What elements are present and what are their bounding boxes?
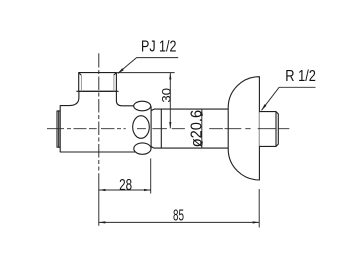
outlet nut line (160, 109, 162, 148)
nipple thread relief line (275, 112, 277, 147)
top port PJ1/2 rectangle (79, 73, 117, 92)
wall escutcheon dome (228, 77, 259, 180)
arrowhead d20.6 top (201, 109, 203, 116)
dimension line 28 (99, 189, 151, 191)
svg-text:30: 30 (161, 88, 173, 103)
valve body outline (left block, top and bottom edges, neck fillets) (60, 91, 136, 152)
svg-text:R 1/2: R 1/2 (285, 68, 316, 85)
svg-text:ø20.6: ø20.6 (188, 110, 205, 147)
top port chamfer right (114, 73, 117, 76)
handle top ellipse (134, 101, 151, 111)
arrowhead 85 left (99, 221, 106, 223)
handle bottom ellipse (134, 143, 151, 154)
extension line right of 85 dim (258, 189, 260, 227)
leader line R1/2 (262, 87, 316, 110)
arrowhead 28 left (99, 189, 106, 191)
top port chamfer left (79, 73, 82, 76)
handle middle ellipse (133, 116, 150, 139)
dimension line 85 (99, 221, 259, 223)
left inlet port thread line (58, 111, 60, 147)
top port bottom lip (76, 90, 118, 92)
vertical centerline of top port (98, 53, 100, 226)
arrowhead PJ leader (118, 68, 124, 74)
arrowhead 28 right (144, 189, 151, 191)
left inlet port end cap (57, 111, 60, 147)
valve body right shoulder to handle (116, 91, 133, 106)
leader line PJ1/2 (118, 58, 178, 74)
extension line for 30 dim (top port top edge extended) (117, 72, 175, 74)
handle right face vertical (150, 106, 152, 148)
arrowhead 85 right (253, 221, 260, 223)
dimension line 30 (169, 73, 171, 128)
white gap in centerline behind d20.6 text (186, 112, 201, 146)
svg-text:PJ 1/2: PJ 1/2 (141, 38, 176, 55)
svg-text:28: 28 (119, 177, 132, 194)
arrowhead 30 top (169, 73, 171, 80)
outlet pipe bottom edge with chamfer (151, 147, 228, 149)
R1/2 threaded nipple outline (259, 112, 278, 147)
svg-text:85: 85 (173, 207, 184, 224)
top port thread line left (80, 75, 82, 91)
outlet pipe top edge with chamfer (151, 109, 228, 111)
extension line right of 28 dim (150, 159, 152, 194)
arrowhead 30 bottom (169, 122, 171, 129)
arrowhead d20.6 bottom (201, 142, 203, 149)
top port thread line right (113, 75, 115, 91)
arrowhead R leader (261, 104, 266, 110)
dimension line d20.6 (201, 109, 203, 147)
horizontal centerline (47, 128, 289, 130)
